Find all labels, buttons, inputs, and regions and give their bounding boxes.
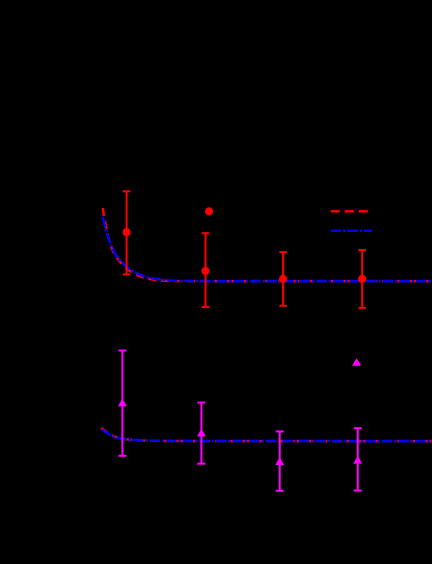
top blue dash-dot fit curve <box>103 217 432 281</box>
top isolated red circle marker <box>205 207 213 215</box>
bottom blue dash-dot fit curve <box>102 430 432 442</box>
bottom data point 1 error bar <box>118 351 126 456</box>
top data point 3 error bar <box>279 252 287 306</box>
bottom red dashed fit curve <box>101 428 432 441</box>
bottom data point 4 marker <box>353 456 362 464</box>
bottom data point 1 marker <box>118 399 127 407</box>
top data point 1 error bar <box>123 191 131 274</box>
top data point 4 error bar <box>358 250 366 308</box>
bottom data point 2 marker <box>197 429 206 437</box>
bottom data point 3 error bar <box>276 431 284 490</box>
top red dashed fit curve <box>103 208 432 281</box>
legend red dashed line sample <box>331 210 368 212</box>
top data point 4 marker <box>358 275 366 283</box>
bottom data point 3 marker <box>275 457 284 465</box>
top data point 2 error bar <box>202 233 210 307</box>
legend blue dash-dot line sample <box>331 230 372 232</box>
top data point 3 marker <box>279 275 287 283</box>
bottom data point 4 error bar <box>354 428 362 490</box>
top data point 2 marker <box>201 267 209 275</box>
bottom data point 2 error bar <box>197 403 205 464</box>
bottom isolated magenta triangle marker <box>352 358 361 366</box>
top data point 1 marker <box>123 228 131 236</box>
